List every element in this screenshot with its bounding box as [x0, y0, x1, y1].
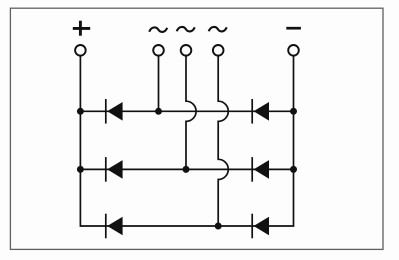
junction dot: phase 2 / row 2	[183, 166, 190, 173]
minus terminal symbol (-)	[286, 27, 301, 30]
diode D2 (lower, phase 1)	[252, 99, 269, 124]
junction dot: - bus row 2	[290, 166, 297, 173]
junction dot: + bus row 2	[77, 166, 84, 173]
junction dot: + bus row 1	[77, 108, 84, 115]
plus terminal symbol (+)	[73, 21, 90, 36]
diode D5 (upper, phase 3)	[106, 214, 123, 239]
AC symbol ~ (phase 3)	[209, 27, 227, 32]
terminal circle phase 3	[213, 45, 224, 56]
terminal circle phase 1	[153, 45, 164, 56]
diode D4 (lower, phase 2)	[252, 157, 269, 182]
terminal circle -	[288, 45, 299, 56]
wire: row 2 horizontal	[80, 168, 293, 170]
terminal circle phase 2	[181, 45, 192, 56]
diode D1 (upper, phase 1)	[106, 99, 123, 124]
AC symbol ~ (phase 1)	[149, 27, 167, 32]
junction dot: - bus row 1	[290, 108, 297, 115]
diode D3 (upper, phase 2)	[106, 157, 123, 182]
wire: phase 3 vertical with crossover hops at rows 1 and 2	[218, 56, 228, 226]
wire: phase 2 vertical with crossover hop at row 1	[186, 56, 196, 169]
junction dot: phase 3 / row 3	[215, 223, 222, 230]
wire: phase 1 vertical	[158, 56, 160, 111]
wire: + bus down, DC row 3, - bus up (U shape)	[80, 56, 293, 226]
wire: row 1 horizontal	[80, 110, 293, 112]
terminal circle +	[75, 45, 86, 56]
AC symbol ~ (phase 2)	[177, 27, 195, 32]
junction dot: phase 1 / row 1	[155, 108, 162, 115]
diode D6 (lower, phase 3)	[252, 214, 269, 239]
